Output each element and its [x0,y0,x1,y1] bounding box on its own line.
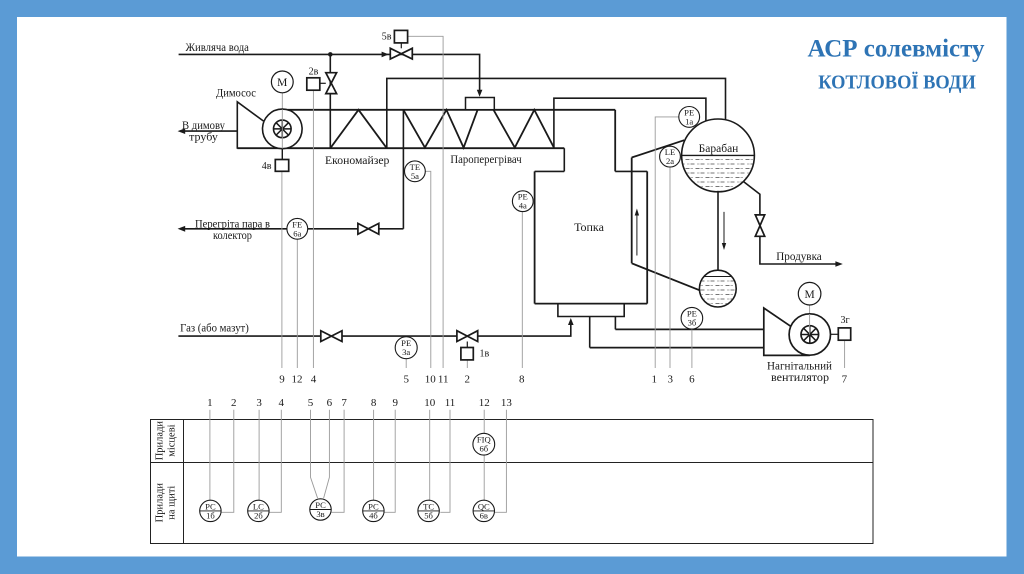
air duct bottom line [590,347,764,349]
column line 3 to LC 2б [258,410,260,501]
wire: superheated steam to collector (Перегріта пара) [185,228,287,230]
svg-text:4в: 4в [262,161,272,172]
actuator box 5в [400,43,402,48]
svg-text:1: 1 [207,397,213,409]
wire: feed water main (Живляча вода) [179,54,480,92]
svg-text:4а: 4а [519,201,527,211]
signal line 10 from TE 5а [425,171,431,368]
TABLE [151,420,874,544]
svg-text:3: 3 [667,373,673,385]
instrument TE 5а [405,161,426,182]
svg-text:М: М [804,289,814,301]
svg-text:11: 11 [438,373,449,385]
svg-text:5в: 5в [382,32,392,43]
diagonal to lower drum [632,263,701,291]
svg-text:місцеві: місцеві [167,424,178,456]
riser wall [631,158,633,264]
instrument PE 1а [679,107,700,128]
svg-text:6б: 6б [479,444,488,454]
svg-text:5а: 5а [411,171,419,181]
svg-text:АСР солевмісту: АСР солевмісту [808,34,985,63]
svg-text:9: 9 [392,397,398,409]
fan outlet to box 3г [831,333,839,335]
HX bank bottom line [237,147,564,149]
box 3г [838,328,850,340]
column line 1 to PC 1б [209,410,211,501]
motor M of forced draft fan [798,282,821,305]
svg-text:7: 7 [341,397,347,409]
svg-text:2: 2 [231,397,237,409]
column line 12 to FIQ 6б and QC 6в [483,410,485,501]
svg-text:4б: 4б [369,510,378,520]
svg-text:Продувка: Продувка [776,249,822,263]
arrow: riser flow up in furnace wall channel [636,213,638,256]
wire: saturated steam from drum to superheater [554,98,706,147]
svg-text:Живляча вода: Живляча вода [185,40,249,54]
wire: blowdown from drum through valve [743,182,836,265]
instrument table frame [151,420,874,544]
svg-text:колектор: колектор [213,228,252,242]
economizer coil zigzag [330,110,387,148]
instrument LE 2а [660,146,681,167]
column line 5 to PC 3в [311,410,318,498]
blowdown valve (vertical) [755,215,764,236]
panel bubble line PC 1б [200,510,221,512]
signal line 12 from FE 6а [296,239,298,368]
arrow: downpipe flow down [723,212,725,245]
box 4в [275,160,288,172]
svg-text:2в: 2в [309,66,319,77]
svg-text:3а: 3а [402,347,410,357]
signal line 7 from box 3г [844,340,846,368]
riser diagonal to drum [632,140,685,157]
svg-text:6а: 6а [293,228,301,238]
instrument FIQ 6б [473,433,495,455]
furnace top edge left [535,170,565,172]
column line 2 to PC 1б side [221,410,234,513]
svg-text:11: 11 [445,397,456,409]
svg-text:Пароперегрівач: Пароперегрівач [450,152,521,166]
motor stem дымосос [281,93,283,160]
svg-text:2: 2 [464,373,470,385]
svg-text:Прилади: Прилади [155,483,166,523]
signal line 4 from box 2в [312,90,314,368]
svg-text:Прилади: Прилади [155,421,166,461]
signal line 1 from PE 1а [655,117,679,368]
box 1в under gas valve 2 [466,342,468,348]
instrument PC 4б [363,500,384,521]
furnace neck right wall [614,110,616,172]
signal line 9 from box 4в [281,171,283,368]
row header: Прилади місцеві [155,421,178,523]
svg-text:трубу: трубу [189,129,218,143]
svg-text:4: 4 [279,397,285,409]
lower drum / separator [699,270,737,307]
svg-text:5: 5 [404,373,410,385]
svg-text:12: 12 [479,397,490,409]
furnace top edge right [615,170,647,172]
wire: economizer inlet drop through valve 2в [329,54,331,148]
signal line 8 from PE 4а [521,212,523,368]
svg-text:8: 8 [371,397,377,409]
svg-text:8: 8 [519,373,525,385]
svg-text:9: 9 [279,373,285,385]
svg-text:Газ (або мазут): Газ (або мазут) [180,321,249,335]
svg-text:3б: 3б [688,318,697,328]
step drop walls to air duct [590,317,616,348]
svg-text:10: 10 [424,397,436,409]
column line 8 to PC 4б [373,410,375,501]
panel bubble line TC 5б [418,510,439,512]
panel bubble line PC 3в [310,509,331,511]
svg-text:3в: 3в [316,509,324,519]
svg-text:Топка: Топка [574,220,604,234]
valve 2в (vertical) [326,73,337,94]
NUMBERS [279,373,847,385]
shaft line through fan [809,314,811,335]
instrument TC 5б [418,500,439,521]
svg-text:12: 12 [292,373,303,385]
svg-text:1: 1 [652,373,658,385]
signal line 5 from PE 3а [405,359,407,368]
signal line 6 from PE 3б [691,329,693,368]
panel bubble line QC 6в [473,510,494,512]
svg-text:Димосос: Димосос [216,86,256,100]
column line 13 to QC 6в side [495,410,507,513]
instrument FE 6а [287,218,308,239]
air duct top line [615,328,763,330]
svg-text:7: 7 [842,373,848,385]
valve on steam collector line [358,223,379,234]
svg-text:Барабан: Барабан [699,143,739,155]
attemperator box on superheater [466,98,495,110]
svg-text:М: М [277,77,287,89]
column line 7 to PC 3в side [331,410,344,513]
actuator box 2в [320,82,326,84]
smoke exhauster (Димосос) [237,71,302,160]
arrow: into attemperator box [477,90,483,97]
wire: superheated steam outlet down to collector line [402,110,404,229]
column line 10 to TC 5б [429,410,431,501]
shaft line through fan [281,109,283,148]
arrow: feed water flow [382,52,389,58]
junction node: feed line tee [328,52,333,57]
panel bubble line PC 4б [363,510,384,512]
arrow: gas into furnace (up) [568,318,574,325]
table header column divider [183,420,185,544]
svg-text:3г: 3г [840,315,849,326]
svg-text:6: 6 [689,373,695,385]
instrument PE 3а [395,337,417,359]
motor M of smoke exhauster [271,71,293,93]
valve 5в (feed control valve) [390,48,412,59]
arrow: steam to collector (left) [178,226,186,232]
instrument QC 6в [473,500,494,521]
svg-text:5б: 5б [424,510,433,520]
svg-text:4: 4 [311,373,317,385]
svg-text:6: 6 [327,397,333,409]
svg-text:2б: 2б [254,510,263,520]
svg-text:5: 5 [308,397,314,409]
signal line 3 from LE 2а [669,167,671,368]
wire: gas line (Газ або мазут) [178,323,570,337]
HX bank top line [288,109,616,111]
forced draft fan (Нагнітальний вентилятор) [764,282,839,355]
svg-text:6в: 6в [480,510,488,520]
gas valve 1 [321,331,342,342]
svg-text:3: 3 [256,397,262,409]
furnace bottom step box [558,304,624,317]
panel bubble line LC 2б [248,510,269,512]
instrument PE 4а [512,191,533,212]
wire: chimney duct from smoke exhauster [185,130,237,132]
steam drum (Барабан) [681,119,755,193]
svg-text:1а: 1а [685,116,693,126]
column line 4 to LC 2б side [269,410,281,513]
svg-text:КОТЛОВОЇ ВОДИ: КОТЛОВОЇ ВОДИ [818,71,976,94]
arrow: blowdown out (right) [835,261,842,267]
wire: drum to lower drum downpipe [717,192,719,271]
superheater coil zigzag [403,110,477,148]
svg-text:13: 13 [501,397,513,409]
wire: economizer outlet riser to drum [387,78,726,148]
signal line 2 from box 1в [466,360,468,368]
instrument PC 3в [310,499,331,520]
svg-text:2а: 2а [666,156,674,166]
motor stem вентилятор [809,305,811,334]
furnace body (Топка) [535,171,648,303]
signal line 11 from box 5в [408,36,444,368]
instrument PC 1б [200,500,221,521]
column line 6 to PC 3в [324,410,330,498]
furnace neck left wall [563,148,565,171]
svg-text:1в: 1в [480,349,490,360]
column line 9 to PC 4б side [384,410,395,513]
instrument LC 2б [248,500,269,521]
svg-text:на щиті: на щиті [167,486,178,520]
instrument PE 3б [681,307,703,329]
svg-text:Економайзер: Економайзер [325,153,389,167]
svg-text:1б: 1б [206,510,215,520]
arrow: to chimney (left) [178,128,186,134]
gas valve 2 [457,331,478,342]
table row divider [151,462,874,464]
column line 11 to TC 5б side [440,410,450,513]
svg-text:вентилятор: вентилятор [771,370,829,384]
svg-text:10: 10 [425,373,437,385]
